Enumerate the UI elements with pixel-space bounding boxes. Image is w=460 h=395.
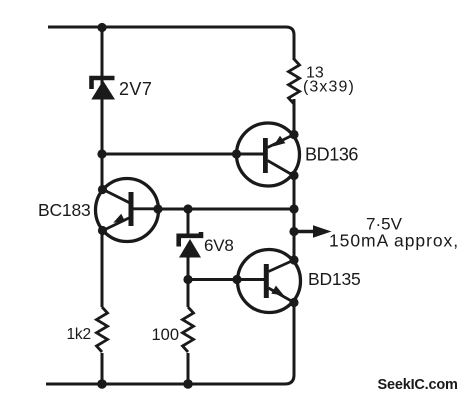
node BD135 emitter <box>289 298 298 307</box>
node left rail to base wire <box>97 149 106 158</box>
svg-text:(3x39): (3x39) <box>303 79 355 96</box>
svg-text:150mA approx,: 150mA approx, <box>329 231 459 251</box>
svg-text:BD136: BD136 <box>305 145 358 165</box>
transistor Q2 BC183 <box>96 179 159 242</box>
svg-text:6V8: 6V8 <box>204 236 234 255</box>
wire bottom rail <box>46 303 294 385</box>
wire top rail <box>48 27 294 60</box>
wire left rail mid <box>101 231 104 308</box>
node mid rail 6V8 junction <box>183 204 192 213</box>
resistor R2 1k2 <box>97 307 108 352</box>
node BD136 base edge <box>232 149 241 158</box>
node BC183 collector <box>98 185 107 194</box>
zener diode D2 6V8 <box>179 232 201 258</box>
wire BD136 base <box>102 153 264 156</box>
svg-text:100: 100 <box>152 326 180 344</box>
node BC183 base edge <box>153 204 162 213</box>
svg-text:2V7: 2V7 <box>119 79 152 99</box>
node BD135 base edge <box>232 275 241 284</box>
node 6V8 bottom junction <box>183 275 192 284</box>
wire 100 bottom lead <box>187 353 190 384</box>
node mid rail right junction <box>289 204 298 213</box>
node BD135 collector <box>289 255 298 264</box>
wire left rail upper <box>101 27 104 189</box>
transistor Q1 BD136 <box>237 123 300 186</box>
node bottom rail 1k2 <box>97 379 107 389</box>
wire BD135 base <box>188 278 264 281</box>
node top-left junction <box>97 23 106 32</box>
node bottom rail 100 <box>183 379 193 389</box>
node BD136 emitter <box>289 130 298 139</box>
resistor R3 100 <box>183 307 194 352</box>
node output tap <box>289 227 298 236</box>
wire right rail emitter lead <box>293 99 296 135</box>
wire 6V8 top lead <box>187 209 190 238</box>
wire right rail mid <box>293 176 296 261</box>
output arrow <box>294 225 332 238</box>
zener diode D1 2V7 <box>91 78 115 100</box>
transistor Q3 BD135 <box>238 250 301 313</box>
node BC183 emitter <box>98 226 107 235</box>
svg-text:BD135: BD135 <box>308 269 361 289</box>
svg-text:BC183: BC183 <box>38 200 91 220</box>
wire 6V8 bottom lead <box>187 256 190 307</box>
wire 1k2 bottom lead <box>101 353 104 384</box>
svg-text:1k2: 1k2 <box>67 326 91 343</box>
svg-text:SeekIC.com: SeekIC.com <box>378 377 458 393</box>
node BD136 collector <box>289 171 298 180</box>
wire mid rail <box>158 208 294 211</box>
resistor R1 13 <box>289 59 300 104</box>
